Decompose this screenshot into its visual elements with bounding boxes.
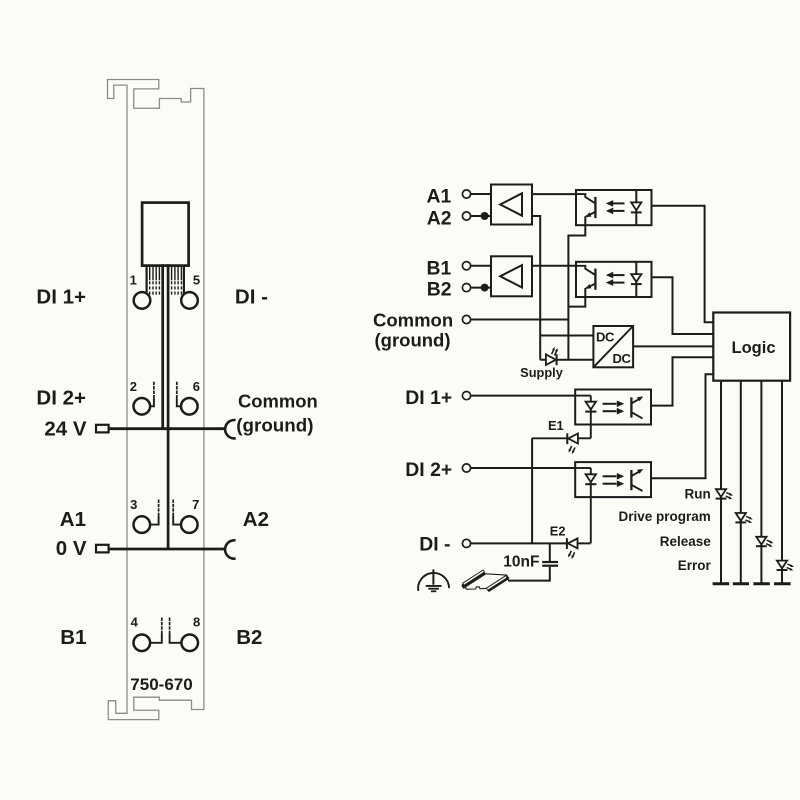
junction dot B2: [481, 284, 489, 292]
wire OK1 to Logic: [652, 206, 714, 322]
phototransistor OK2: [576, 266, 595, 275]
svg-text:Run: Run: [685, 487, 711, 502]
svg-text:A1: A1: [60, 508, 86, 531]
svg-text:2: 2: [130, 379, 137, 394]
svg-text:E1: E1: [548, 418, 564, 433]
svg-text:B1: B1: [427, 257, 452, 279]
phototransistor OK1: [576, 194, 595, 203]
svg-text:(ground): (ground): [375, 330, 451, 351]
line receiver U1 (A): [491, 185, 532, 225]
diode E1: [532, 433, 591, 454]
hook contact 8: [170, 617, 182, 642]
earth ground symbol: [418, 569, 449, 591]
wire B buffer out to optocoupler: [532, 265, 576, 267]
svg-text:DI 1+: DI 1+: [36, 286, 86, 309]
dotted data pins right group: [172, 266, 182, 296]
LED OK4: [575, 467, 591, 469]
svg-text:Supply: Supply: [520, 365, 564, 380]
terminal B1: [462, 262, 470, 270]
svg-text:0 V: 0 V: [56, 537, 87, 560]
wire DI2+ to optocoupler: [471, 467, 576, 469]
wire B2 to buffer: [471, 287, 491, 289]
wire A1 to buffer: [471, 193, 491, 195]
connector pin 1 (solid left): [146, 266, 148, 293]
svg-text:Common: Common: [238, 391, 318, 412]
0V clamp: [225, 540, 234, 558]
diode E2: [567, 538, 578, 559]
24V terminal lug: [96, 425, 109, 433]
svg-text:A2: A2: [243, 508, 269, 531]
terminal A2: [462, 212, 470, 220]
wire E1 down to DI- line: [531, 438, 533, 543]
terminal A1: [462, 190, 470, 198]
svg-text:8: 8: [193, 614, 200, 629]
contact 5 circle: [181, 292, 198, 309]
hook contact 3: [150, 499, 158, 524]
svg-text:Release: Release: [660, 534, 712, 549]
LED Drive program: [735, 513, 752, 523]
dotted data pins left group: [150, 266, 160, 296]
optocoupler OK3 (DI1): [575, 390, 651, 439]
svg-text:Common: Common: [373, 309, 453, 330]
DC/DC converter: [593, 326, 633, 367]
line receiver U2 (B): [491, 256, 532, 296]
svg-text:DC: DC: [596, 329, 615, 344]
light arrows OK1: [612, 202, 625, 204]
wire supply to DC/DC upper: [540, 335, 593, 337]
LED OK2: [635, 262, 637, 297]
LED rail Drive program: [740, 381, 742, 584]
wire OK3 to Logic: [651, 357, 713, 405]
module housing outline: [108, 80, 204, 720]
hook contact 7: [173, 499, 181, 524]
svg-text:10nF: 10nF: [503, 554, 539, 571]
optocoupler OK1 (A): [568, 190, 651, 360]
wire DI- line: [471, 542, 591, 544]
LED rail Error: [781, 381, 783, 584]
svg-text:750-670: 750-670: [130, 675, 192, 694]
LED OK1: [635, 190, 637, 225]
svg-text:A1: A1: [427, 186, 452, 208]
terminal Common: [462, 315, 470, 323]
svg-text:B2: B2: [236, 626, 262, 649]
0V terminal lug: [96, 545, 109, 553]
optocoupler OK2 (B): [568, 262, 651, 307]
LED Run: [716, 489, 733, 499]
svg-text:B1: B1: [60, 626, 86, 649]
LED OK3: [575, 395, 591, 397]
24V clamp: [225, 420, 234, 438]
24V wire: [109, 427, 224, 430]
contact 6 circle: [181, 398, 198, 415]
svg-text:A2: A2: [427, 207, 452, 229]
supply LED D1: [546, 347, 558, 365]
wire A2 to buffer: [471, 215, 491, 217]
contact 1 circle: [134, 292, 151, 309]
hook contact 4: [150, 617, 162, 642]
light arrows OK3: [603, 403, 617, 405]
wire B1 to buffer: [471, 265, 491, 267]
Logic block: [713, 313, 790, 381]
contact 7 circle: [181, 516, 198, 533]
svg-text:4: 4: [131, 614, 139, 629]
svg-text:DI -: DI -: [419, 533, 450, 555]
svg-text:24 V: 24 V: [44, 417, 86, 440]
capacitor 10nF: [508, 543, 558, 580]
wire OK2 to Logic: [652, 277, 714, 334]
svg-text:DI 2+: DI 2+: [405, 459, 452, 481]
LED rail Run: [720, 381, 722, 584]
contact 8 circle: [181, 635, 198, 652]
contact 2 circle: [134, 398, 151, 415]
contact 4 circle: [134, 635, 151, 652]
svg-text:DI 2+: DI 2+: [36, 387, 86, 410]
power bus line left (thick, to 24V row): [161, 266, 164, 429]
power bus line right (thick, to 0V row): [167, 266, 170, 548]
svg-text:DI 1+: DI 1+: [405, 387, 452, 409]
phototransistor OK4: [630, 470, 632, 490]
DIN rail symbol: [461, 570, 509, 592]
optocoupler OK4 (DI2): [575, 462, 651, 543]
connector block: [142, 203, 189, 266]
svg-text:DI -: DI -: [235, 286, 268, 309]
wire A buffer out to optocoupler: [532, 193, 576, 195]
hook contact 2: [150, 382, 154, 407]
terminal DI-: [462, 539, 470, 547]
wire DC/DC to Logic: [633, 345, 713, 347]
0V wire: [109, 548, 224, 551]
terminal DI2+: [462, 464, 470, 472]
svg-text:7: 7: [192, 497, 199, 512]
contact 3 circle: [134, 516, 151, 533]
svg-text:B2: B2: [427, 279, 452, 301]
wire OK4 to Logic: [651, 374, 713, 478]
svg-text:DC: DC: [613, 351, 632, 366]
svg-text:1: 1: [130, 272, 137, 287]
wire Common to supply node: [471, 319, 569, 321]
svg-text:5: 5: [193, 272, 200, 287]
LED Error: [777, 561, 794, 571]
wire A buffer lower out: [532, 216, 540, 360]
junction dot A2: [481, 212, 489, 220]
hook contact 6: [177, 382, 181, 407]
svg-text:Drive program: Drive program: [619, 509, 711, 524]
light arrows OK4: [603, 475, 617, 477]
svg-text:Logic: Logic: [732, 339, 776, 357]
svg-text:E2: E2: [550, 523, 566, 538]
svg-text:3: 3: [130, 497, 137, 512]
svg-text:(ground): (ground): [236, 414, 313, 435]
svg-text:6: 6: [193, 379, 200, 394]
wire DI1+ to optocoupler: [471, 395, 576, 397]
LED Release: [756, 537, 773, 547]
light arrows OK2: [612, 274, 625, 276]
svg-text:Error: Error: [678, 558, 712, 573]
connector pin 5 (solid right): [183, 266, 185, 293]
terminal DI1+: [462, 392, 470, 400]
supply LED line: [540, 359, 593, 361]
terminal B2: [462, 284, 470, 292]
LED rail Release: [760, 381, 762, 584]
phototransistor OK3: [630, 397, 632, 417]
